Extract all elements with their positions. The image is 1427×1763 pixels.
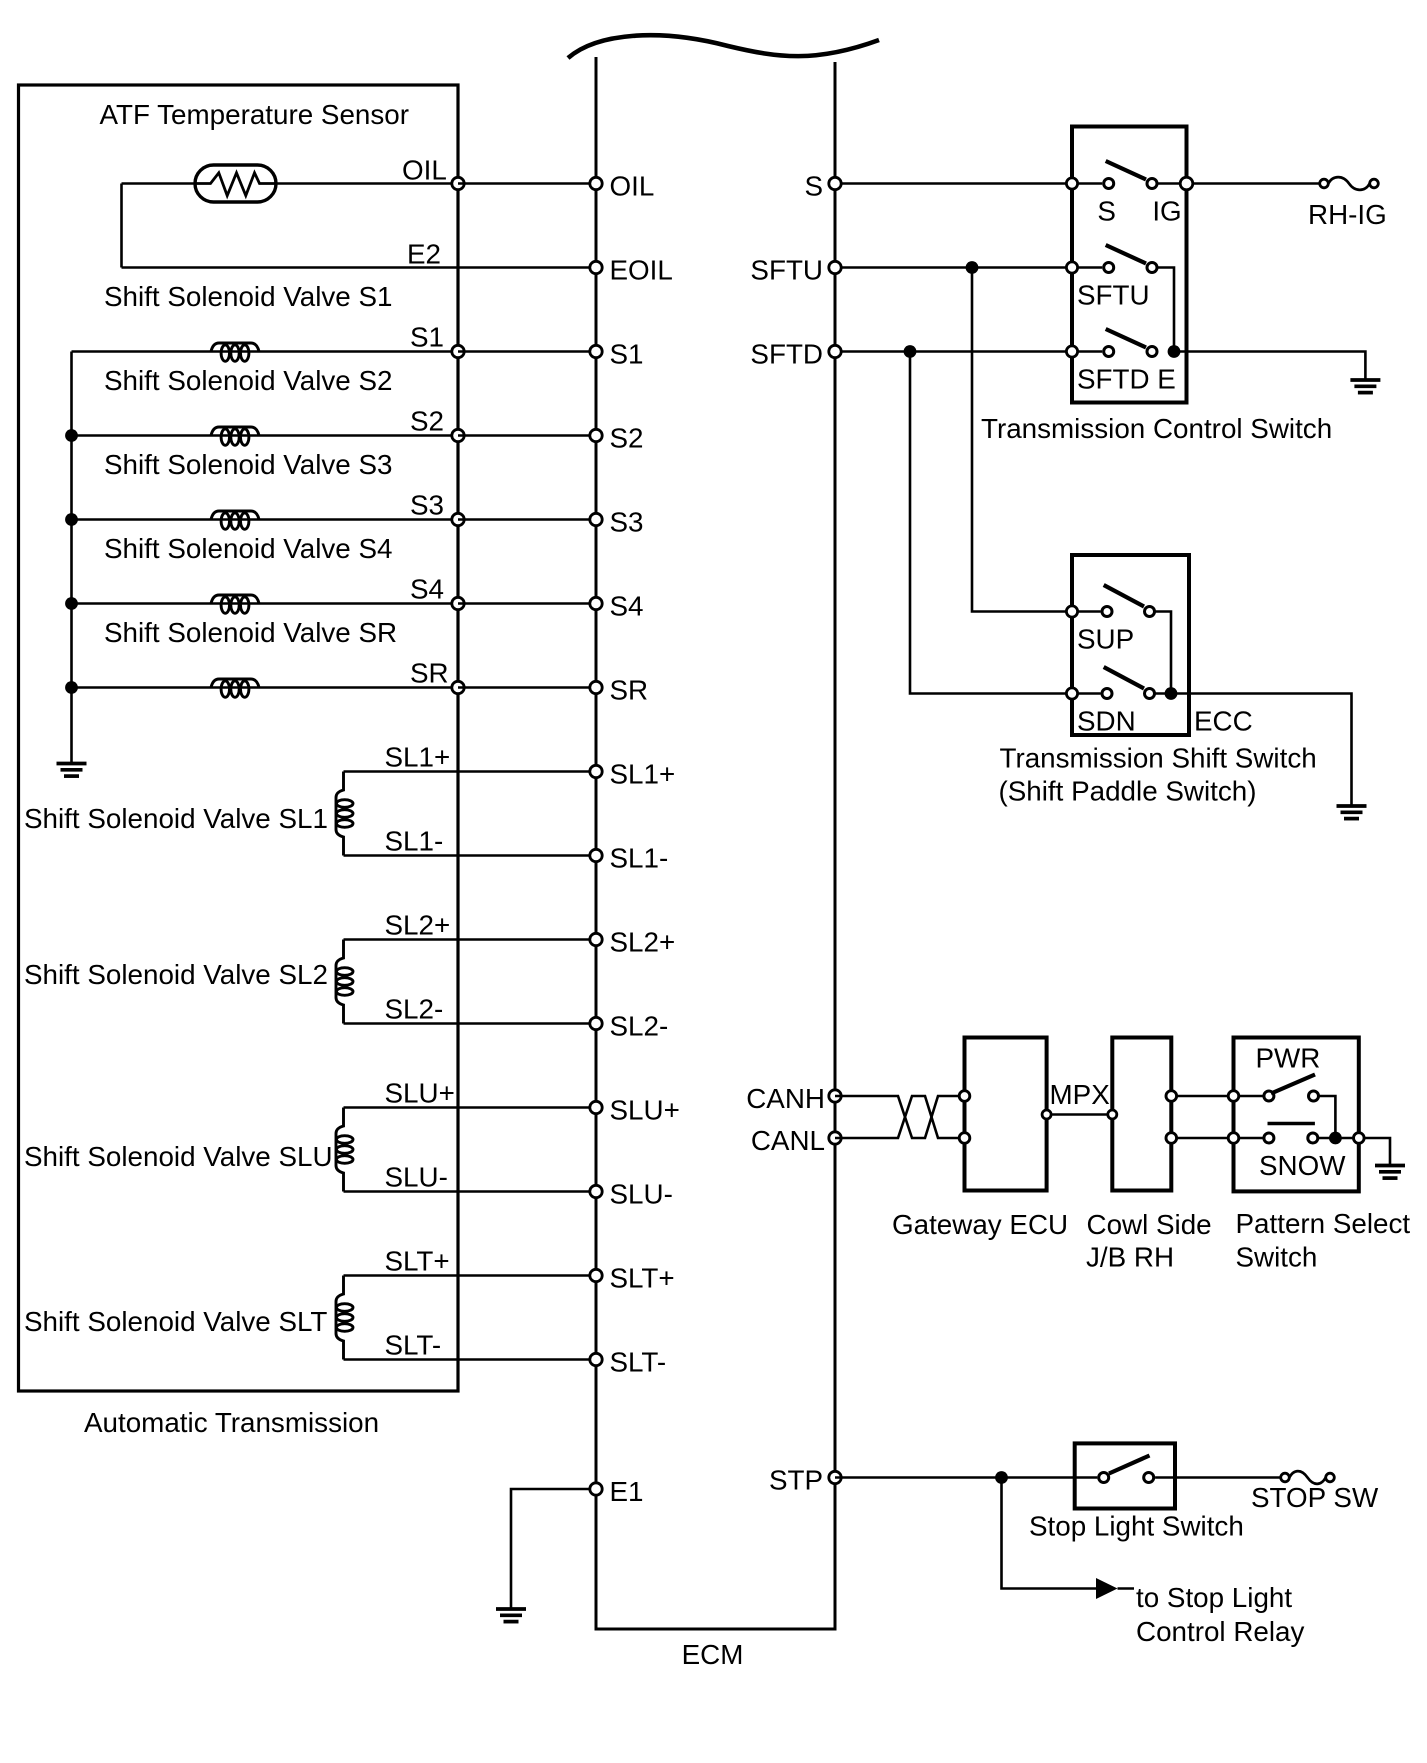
solenoid coil S3 xyxy=(211,511,259,529)
Stop Light Switch contacts xyxy=(1099,1473,1109,1483)
TCS switch S contacts xyxy=(1078,182,1102,185)
svg-text:SUP: SUP xyxy=(1077,624,1134,655)
ground for E1 xyxy=(496,1609,526,1622)
Stop Light Switch blade xyxy=(1109,1456,1150,1474)
box Gateway ECU xyxy=(965,1038,1047,1191)
svg-text:(Shift Paddle Switch): (Shift Paddle Switch) xyxy=(999,776,1257,807)
svg-text:SR: SR xyxy=(610,675,649,706)
ECM pin SFTD xyxy=(829,345,841,357)
ECM pin STP xyxy=(829,1471,841,1483)
svg-text:SL2-: SL2- xyxy=(385,994,444,1025)
ECM pin S2 xyxy=(590,429,602,441)
ECM pin SLT+ xyxy=(590,1269,602,1281)
wire SFTD to Transmission Control Switch xyxy=(835,350,1072,353)
TCS switch SFTD contacts xyxy=(1078,350,1102,353)
svg-text:SL1-: SL1- xyxy=(610,843,669,874)
svg-text:S: S xyxy=(1097,196,1116,227)
solenoid coil S4 xyxy=(211,595,259,613)
svg-text:SLU-: SLU- xyxy=(610,1179,673,1210)
svg-text:CANH: CANH xyxy=(746,1083,825,1114)
solenoid coil SLU (vertical) xyxy=(336,1108,353,1192)
svg-text:SLU-: SLU- xyxy=(385,1162,448,1193)
wire S4 to ECM xyxy=(458,602,596,605)
TCS terminal SFTU xyxy=(1066,262,1077,273)
svg-text:Automatic Transmission: Automatic Transmission xyxy=(84,1407,379,1438)
junction dot SNOW-PWR xyxy=(1329,1132,1342,1145)
PWR switch contacts xyxy=(1239,1095,1263,1098)
wire SDN row to ground xyxy=(1155,694,1351,806)
wire Cowl Side to Pattern Select upper xyxy=(1177,1095,1228,1098)
svg-text:OIL: OIL xyxy=(402,155,447,186)
ECM pin SL1+ xyxy=(590,765,602,777)
Cowl Side pin upper right xyxy=(1166,1091,1177,1102)
svg-text:SL1+: SL1+ xyxy=(385,742,451,773)
svg-text:STP: STP xyxy=(769,1465,823,1496)
TSS terminal SUP xyxy=(1066,606,1077,617)
PSS right terminal xyxy=(1354,1133,1365,1144)
wire SL1+ row xyxy=(344,770,597,773)
svg-text:SFTU: SFTU xyxy=(750,255,823,286)
ground for Transmission Control Switch E xyxy=(1350,380,1380,393)
ECM pin SFTU xyxy=(829,261,841,273)
wire IG to RH-IG fuse xyxy=(1158,182,1319,185)
pin circle S2 on AT box edge xyxy=(452,429,464,441)
junction dot on bus at S3 xyxy=(65,513,78,526)
PSS terminal SNOW xyxy=(1228,1133,1239,1144)
junction dot on bus at S2 xyxy=(65,429,78,442)
fuse STOP SW xyxy=(1289,1471,1325,1484)
svg-text:RH-IG: RH-IG xyxy=(1308,199,1387,230)
svg-text:Transmission Control Switch: Transmission Control Switch xyxy=(981,413,1332,444)
svg-text:Stop Light Switch: Stop Light Switch xyxy=(1029,1511,1244,1542)
TSS switch SDN blade xyxy=(1104,667,1144,689)
Gateway ECU pin MPX xyxy=(1042,1110,1051,1119)
ground for solenoid bus xyxy=(57,764,87,777)
solenoid coil S2 xyxy=(211,427,259,445)
wire SUP contact to ECC junction xyxy=(1155,612,1171,694)
svg-text:STOP SW: STOP SW xyxy=(1251,1482,1379,1513)
TSS terminal SDN xyxy=(1066,688,1077,699)
svg-text:OIL: OIL xyxy=(610,171,655,202)
ground for Transmission Shift Switch ECC xyxy=(1337,806,1367,819)
svg-text:SLU+: SLU+ xyxy=(610,1095,680,1126)
svg-text:E: E xyxy=(1157,364,1176,395)
ECM pin S xyxy=(829,177,841,189)
svg-text:Shift Solenoid Valve SLT: Shift Solenoid Valve SLT xyxy=(24,1306,327,1337)
TCS terminal S xyxy=(1066,178,1077,189)
wire SFTD drop to shift paddle SDN xyxy=(910,352,1072,694)
svg-text:ECM: ECM xyxy=(682,1639,744,1670)
wire S to Transmission Control Switch xyxy=(835,182,1072,185)
wire SLT+ row xyxy=(344,1274,597,1277)
box ECM (left edge, right edge, bottom) xyxy=(596,57,835,1629)
ECM pin S1 xyxy=(590,345,602,357)
svg-text:ATF Temperature Sensor: ATF Temperature Sensor xyxy=(100,99,410,130)
solenoid coil SL2 (vertical) xyxy=(336,940,353,1024)
wire break squiggle at top of ECM bus xyxy=(568,35,879,58)
svg-text:Switch: Switch xyxy=(1236,1242,1318,1273)
svg-text:Shift Solenoid Valve S3: Shift Solenoid Valve S3 xyxy=(104,449,392,480)
box Automatic Transmission xyxy=(19,85,459,1391)
ECM pin E1 xyxy=(590,1483,602,1495)
TCS switch SFTU contacts xyxy=(1078,266,1102,269)
svg-text:to Stop Light: to Stop Light xyxy=(1136,1582,1292,1613)
pin circle S3 on AT box edge xyxy=(452,513,464,525)
TSS switch SDN contacts xyxy=(1078,692,1101,695)
wire Pattern Select to ground xyxy=(1364,1138,1390,1165)
ECM pin S4 xyxy=(590,597,602,609)
box Pattern Select Switch xyxy=(1234,1038,1359,1192)
svg-text:MPX: MPX xyxy=(1050,1079,1110,1110)
svg-text:E2: E2 xyxy=(407,239,441,270)
wire S1 with corner to left bus xyxy=(72,350,459,353)
svg-text:ECC: ECC xyxy=(1194,706,1253,737)
ECM pin OIL xyxy=(590,177,602,189)
twisted pair CANH wire xyxy=(835,1096,959,1138)
pin circle S1 on AT box edge xyxy=(452,345,464,357)
svg-text:Shift Solenoid Valve S2: Shift Solenoid Valve S2 xyxy=(104,365,392,396)
wire SFTU to Transmission Control Switch xyxy=(835,266,1072,269)
box Transmission Shift Switch xyxy=(1072,555,1189,735)
svg-text:S: S xyxy=(804,171,823,202)
svg-text:Shift Solenoid Valve SL1: Shift Solenoid Valve SL1 xyxy=(24,803,328,834)
junction dot at ECC contact xyxy=(1165,687,1178,700)
wire OIL to ECM xyxy=(458,182,596,185)
svg-text:IG: IG xyxy=(1152,196,1181,227)
solenoid coil SL1 (vertical) xyxy=(336,772,353,856)
svg-text:SLT+: SLT+ xyxy=(385,1246,450,1277)
wire SR row xyxy=(72,686,459,689)
TCS switch S blade xyxy=(1106,161,1146,180)
wire SFTU contact to E junction xyxy=(1158,268,1174,352)
svg-text:Shift Solenoid Valve S1: Shift Solenoid Valve S1 xyxy=(104,281,392,312)
svg-text:S1: S1 xyxy=(410,322,444,353)
wire S3 row xyxy=(72,518,459,521)
Gateway ECU pin CANH xyxy=(959,1091,970,1102)
wire branch to Stop Light Control Relay with arrow xyxy=(1002,1478,1097,1589)
wire S1 to ECM xyxy=(458,350,596,353)
svg-text:S1: S1 xyxy=(610,339,644,370)
svg-text:SDN: SDN xyxy=(1077,706,1136,737)
svg-text:SR: SR xyxy=(410,658,449,689)
PSS terminal PWR xyxy=(1228,1091,1239,1102)
ground for Pattern Select Switch xyxy=(1375,1166,1405,1179)
svg-text:SFTD: SFTD xyxy=(750,339,823,370)
svg-text:SFTU: SFTU xyxy=(1077,280,1150,311)
box Cowl Side J/B RH xyxy=(1112,1038,1171,1191)
junction dot at E contact xyxy=(1168,345,1181,358)
svg-text:SLU+: SLU+ xyxy=(385,1078,455,1109)
svg-text:S2: S2 xyxy=(610,423,644,454)
thermistor ATF temperature sensor symbol xyxy=(195,165,276,202)
svg-text:Pattern Select: Pattern Select xyxy=(1236,1208,1411,1239)
ECM pin SLT- xyxy=(590,1353,602,1365)
Gateway ECU pin CANL xyxy=(959,1133,970,1144)
svg-text:Control Relay: Control Relay xyxy=(1136,1616,1304,1647)
svg-text:Shift Solenoid Valve S4: Shift Solenoid Valve S4 xyxy=(104,533,392,564)
svg-text:SLT+: SLT+ xyxy=(610,1263,675,1294)
wire Stop Light Switch to fuse xyxy=(1155,1476,1281,1479)
box Stop Light Switch xyxy=(1075,1443,1175,1508)
solenoid coil SLT (vertical) xyxy=(336,1276,353,1360)
junction dot on bus at S4 xyxy=(65,597,78,610)
ECM pin SR xyxy=(590,681,602,693)
ECM pin SL1- xyxy=(590,849,602,861)
TCS right terminal IG xyxy=(1180,177,1193,190)
svg-text:SL2+: SL2+ xyxy=(610,927,676,958)
svg-text:SLT-: SLT- xyxy=(385,1330,442,1361)
wire SL2- row xyxy=(344,1022,597,1025)
svg-text:SL1+: SL1+ xyxy=(610,759,676,790)
svg-text:PWR: PWR xyxy=(1256,1043,1321,1074)
svg-text:SLT-: SLT- xyxy=(610,1347,667,1378)
wire E1 to ground xyxy=(511,1489,596,1609)
ECM pin CANL xyxy=(829,1132,841,1144)
fuse RH-IG xyxy=(1328,177,1369,190)
svg-text:CANL: CANL xyxy=(751,1125,825,1156)
SNOW closed switch bar xyxy=(1268,1122,1315,1126)
pin circle OIL on AT box edge xyxy=(452,177,464,189)
TSS switch SUP blade xyxy=(1104,585,1144,607)
svg-text:Shift Solenoid Valve SL2: Shift Solenoid Valve SL2 xyxy=(24,959,328,990)
svg-text:Cowl Side: Cowl Side xyxy=(1087,1209,1212,1240)
svg-text:Transmission Shift Switch: Transmission Shift Switch xyxy=(1000,743,1317,774)
wire SL2+ row xyxy=(344,938,597,941)
wire STP to Stop Light Switch xyxy=(835,1476,1097,1479)
wire SLU+ row xyxy=(344,1106,597,1109)
junction dot on SFTD wire xyxy=(904,345,917,358)
pin circle S4 on AT box edge xyxy=(452,597,464,609)
junction dot on bus at SR xyxy=(65,681,78,694)
solenoid coil S1 xyxy=(211,343,259,361)
ECM pin SLU- xyxy=(590,1185,602,1197)
svg-text:S4: S4 xyxy=(410,574,444,605)
TCS switch SFTD blade xyxy=(1106,329,1146,348)
ECM pin EOIL xyxy=(590,261,602,273)
ECM pin SL2- xyxy=(590,1017,602,1029)
SNOW switch contacts xyxy=(1239,1137,1263,1140)
Cowl Side pin MPX xyxy=(1108,1110,1117,1119)
wire SFTU drop to shift paddle SUP xyxy=(972,268,1072,612)
svg-text:S3: S3 xyxy=(610,507,644,538)
ECM pin SL2+ xyxy=(590,933,602,945)
wire S4 row xyxy=(72,602,459,605)
svg-text:SL2+: SL2+ xyxy=(385,910,451,941)
PWR switch blade xyxy=(1271,1075,1315,1094)
pin circle SR on AT box edge xyxy=(452,681,464,693)
ECM pin CANH xyxy=(829,1090,841,1102)
Cowl Side pin lower right xyxy=(1166,1133,1177,1144)
wire S3 to ECM xyxy=(458,518,596,521)
svg-text:Shift Solenoid Valve SR: Shift Solenoid Valve SR xyxy=(104,617,397,648)
wire SLT- row xyxy=(344,1358,597,1361)
TCS switch SFTU blade xyxy=(1106,245,1146,264)
left solenoid bus down to ground xyxy=(70,352,73,763)
svg-text:SFTD: SFTD xyxy=(1077,364,1150,395)
wire SL1- row xyxy=(344,854,597,857)
TCS terminal SFTD xyxy=(1066,346,1077,357)
ECM pin S3 xyxy=(590,513,602,525)
ECM pin SLU+ xyxy=(590,1101,602,1113)
wire S2 row xyxy=(72,434,459,437)
wire E2 to ECM EOIL pin xyxy=(122,266,597,269)
wire thermistor left leg down to E2 xyxy=(120,184,123,268)
svg-text:S2: S2 xyxy=(410,406,444,437)
junction dot on STP wire xyxy=(995,1471,1008,1484)
svg-text:SL1-: SL1- xyxy=(385,826,444,857)
junction dot on SFTU wire xyxy=(966,261,979,274)
wire MPX to Cowl Side J/B xyxy=(1052,1113,1107,1116)
svg-text:Gateway ECU: Gateway ECU xyxy=(892,1209,1068,1240)
wire PWR to SNOW junction xyxy=(1319,1096,1336,1138)
svg-text:SNOW: SNOW xyxy=(1259,1150,1346,1181)
twisted pair CANL wire xyxy=(835,1096,959,1138)
svg-text:Shift Solenoid Valve SLU: Shift Solenoid Valve SLU xyxy=(24,1141,333,1172)
wire Cowl Side to Pattern Select lower xyxy=(1177,1137,1228,1140)
svg-text:EOIL: EOIL xyxy=(610,255,673,286)
svg-text:E1: E1 xyxy=(610,1476,644,1507)
solenoid coil SR xyxy=(211,679,259,697)
wire SFTD row to ground xyxy=(1179,352,1365,380)
svg-text:SL2-: SL2- xyxy=(610,1011,669,1042)
box Transmission Control Switch xyxy=(1072,127,1187,403)
svg-text:J/B RH: J/B RH xyxy=(1086,1242,1174,1273)
svg-text:S4: S4 xyxy=(610,591,644,622)
svg-text:S3: S3 xyxy=(410,490,444,521)
wire OIL from thermistor to AT box edge xyxy=(122,182,459,185)
wire SLU- row xyxy=(344,1190,597,1193)
wire S2 to ECM xyxy=(458,434,596,437)
TSS switch SUP contacts xyxy=(1078,610,1101,613)
wire SR to ECM xyxy=(458,686,596,689)
